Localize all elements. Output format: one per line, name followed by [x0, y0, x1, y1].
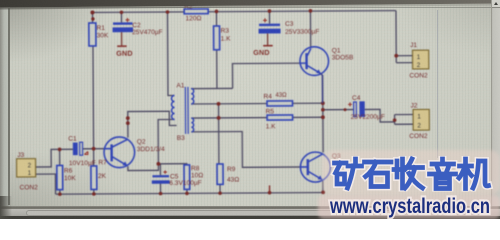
watermark char 矿	[335, 159, 362, 188]
wire C5 node to R8	[158, 164, 186, 165]
connector J3	[17, 159, 36, 177]
resistor R1	[89, 23, 96, 46]
watermark pink glow backdrop	[322, 150, 500, 195]
wire R6 top lead	[59, 149, 61, 165]
resistor R9	[217, 164, 223, 184]
watermark char 音	[430, 159, 456, 189]
wire J3 pin1 stub down to rail	[35, 174, 55, 194]
primary winding (left)	[171, 95, 174, 119]
capacitor C2	[112, 18, 133, 46]
wire R4 row	[191, 102, 323, 105]
wire R1 top lead	[91, 12, 93, 22]
wire R7 top lead	[93, 149, 95, 166]
wire Q1 emitter to Q3 collector vertical	[322, 75, 324, 152]
resistor R8	[184, 165, 190, 190]
wire R3 top lead	[215, 12, 217, 26]
capacitor C5	[152, 170, 170, 183]
wire R5 row	[191, 116, 323, 119]
wire C1 right to Q2 base	[82, 148, 104, 150]
wire C5 bottom lead	[160, 183, 162, 193]
wire bottom ground rail	[56, 193, 324, 195]
watermark char 石	[365, 162, 392, 187]
wire secondary W4 bottom lead to Q3 base	[191, 131, 301, 167]
wire R6 bottom lead	[59, 190, 61, 194]
watermark char 音 halo	[430, 159, 456, 189]
wire C3 top lead	[268, 11, 270, 23]
svg-text:www.crystalradio.cn: www.crystalradio.cn	[329, 195, 490, 218]
core	[185, 87, 188, 134]
wire Q3 emitter lead	[322, 181, 324, 193]
watermark char 石 halo	[365, 162, 392, 187]
resistor R4	[267, 101, 293, 106]
watermark char 收	[394, 159, 423, 188]
wire Q2 collector path	[128, 111, 177, 137]
resistor R3	[214, 26, 220, 50]
wire R7 bottom lead	[93, 189, 95, 193]
watermark char 矿 halo	[335, 159, 362, 188]
wire J3 pin2 stub up to input node	[35, 149, 73, 167]
capacitor C3	[259, 18, 281, 46]
wire R9 bottom lead	[219, 184, 221, 193]
wire Q1 base wire	[232, 63, 300, 88]
wire rail drop to transformer primary top	[167, 12, 174, 96]
transistor Q1	[300, 47, 329, 104]
resistor R6	[57, 165, 63, 189]
resistor R2	[184, 9, 208, 14]
wire C2 top lead	[120, 12, 122, 22]
watermark char 机 halo	[459, 159, 489, 189]
transistor Q3	[300, 152, 330, 182]
wire Q1 collector lead	[309, 11, 311, 48]
transistor Q2	[104, 137, 135, 168]
resistor R7	[91, 166, 97, 190]
secondary winding W4 (bottom right)	[191, 118, 193, 132]
wire Q2 emitter path to C5 node	[128, 164, 159, 171]
secondary winding W3 (top right)	[191, 89, 194, 104]
wire rail drop to J1	[395, 11, 397, 63]
wire J1 pin stubs	[396, 56, 413, 63]
connector J2	[413, 109, 429, 130]
capacitor C1	[73, 142, 88, 155]
resistor R5	[267, 115, 293, 120]
wire R1 bottom lead down to Q2 base node	[92, 46, 95, 149]
wire secondary W3 top lead	[191, 87, 233, 89]
ground stub on bottom rail	[269, 185, 271, 192]
transformer A1/B3	[171, 87, 194, 134]
connector J1	[412, 50, 428, 69]
wire R8 bottom lead	[186, 189, 188, 193]
wire J2 pin vertical	[395, 115, 414, 125]
capacitor C4	[348, 101, 365, 117]
wire R9 branch vertical	[218, 104, 220, 164]
watermark char 机	[459, 159, 489, 189]
wire C5 top lead	[159, 164, 161, 175]
watermark char 收 halo	[394, 159, 423, 188]
wire top power rail	[92, 11, 395, 13]
wire primary bottom lead down to C5 node	[158, 119, 175, 163]
wire C4 tap	[323, 109, 395, 122]
wire R3 bottom lead to Q1 base node	[216, 50, 218, 89]
